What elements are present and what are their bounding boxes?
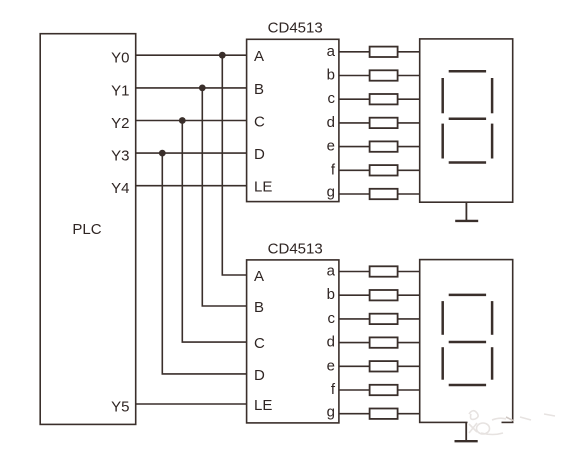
svg-text:D: D [254, 146, 265, 163]
svg-text:g: g [327, 184, 335, 201]
svg-text:Y2: Y2 [111, 115, 129, 132]
svg-text:e: e [327, 138, 335, 155]
wire R9 to DS2 [398, 294, 420, 296]
wire R13 to DS2 [398, 389, 420, 391]
resistor R2 [370, 70, 398, 80]
display DS2 box [420, 260, 513, 423]
svg-text:e: e [327, 357, 335, 374]
wire branch Y1 to U2 pin B [202, 88, 246, 306]
svg-text:Y4: Y4 [111, 180, 129, 197]
wire U2 g to R14 [339, 413, 370, 415]
wire R6 to DS1 [398, 169, 420, 171]
DS2 segment b [491, 301, 494, 335]
resistor R12 [370, 361, 398, 371]
resistor R7 [370, 189, 398, 199]
DS1 segment c [491, 124, 494, 159]
DS2 segment d [449, 384, 486, 387]
DS2 segment g [449, 341, 486, 344]
wire R10 to DS2 [398, 318, 420, 320]
svg-text:f: f [331, 381, 336, 398]
junction dot on Y3 [159, 150, 166, 157]
resistor R9 [370, 290, 398, 300]
svg-text:LE: LE [254, 179, 272, 196]
DS2 segment c [491, 347, 494, 380]
wire Y3 [136, 152, 247, 154]
svg-text:C: C [254, 335, 265, 352]
svg-text:f: f [331, 161, 336, 178]
wire Y4 [136, 185, 247, 187]
resistor R5 [370, 141, 398, 151]
DS1 segment d [449, 161, 486, 164]
svg-text:b: b [327, 286, 335, 303]
svg-text:Y0: Y0 [111, 50, 129, 67]
svg-text:d: d [327, 334, 335, 351]
wire branch Y0 to U2 pin A [222, 55, 246, 275]
wire branch Y2 to U2 pin C [182, 121, 246, 343]
resistor R3 [370, 94, 398, 104]
PLC box [40, 34, 136, 425]
svg-text:a: a [327, 263, 336, 280]
svg-text:B: B [254, 299, 264, 316]
svg-text:B: B [254, 81, 264, 98]
wire U2 a to R8 [339, 271, 370, 273]
svg-text:LE: LE [254, 397, 272, 414]
DS2 segment e [441, 347, 444, 380]
wire U1 d to R4 [339, 122, 370, 124]
wire R2 to DS1 [398, 75, 420, 77]
svg-text:A: A [254, 268, 264, 285]
resistor R4 [370, 118, 398, 128]
wire R11 to DS2 [398, 342, 420, 344]
ground for DS1 [455, 202, 478, 221]
wire U1 e to R5 [339, 146, 370, 148]
wire Y1 [136, 87, 247, 89]
resistor R10 [370, 314, 398, 324]
DS1 segment f [441, 78, 444, 113]
wire Y5 [136, 403, 247, 405]
svg-text:A: A [254, 48, 264, 65]
svg-text:a: a [327, 43, 336, 60]
svg-text:g: g [327, 403, 335, 420]
DS2 segment f [441, 301, 444, 335]
wire R12 to DS2 [398, 365, 420, 367]
wire R14 to DS2 [398, 413, 420, 415]
wire Y2 [136, 120, 247, 122]
wire branch Y3 to U2 pin D [162, 153, 246, 374]
wire U2 e to R12 [339, 365, 370, 367]
resistor R13 [370, 385, 398, 395]
svg-text:Y1: Y1 [111, 82, 129, 99]
wire U2 b to R9 [339, 294, 370, 296]
wire R3 to DS1 [398, 98, 420, 100]
wire R7 to DS1 [398, 193, 420, 195]
svg-text:b: b [327, 67, 335, 84]
wire R4 to DS1 [398, 122, 420, 124]
wire R8 to DS2 [398, 271, 420, 273]
svg-text:c: c [328, 90, 336, 107]
junction dot on Y0 [219, 52, 226, 59]
wire U1 c to R3 [339, 98, 370, 100]
DS2 segment a [449, 294, 486, 297]
wire R5 to DS1 [398, 146, 420, 148]
wire R1 to DS1 [398, 51, 420, 53]
DS1 segment g [449, 118, 486, 121]
svg-text:Y3: Y3 [111, 148, 129, 165]
display DS1 box [420, 39, 513, 202]
watermark (faint logo over lower display box edge) [468, 411, 556, 435]
resistor R11 [370, 337, 398, 347]
DS1 segment a [449, 70, 486, 73]
resistor R1 [370, 47, 398, 57]
ground for DS2 [455, 422, 478, 441]
wire U2 c to R10 [339, 318, 370, 320]
wire U2 f to R13 [339, 389, 370, 391]
svg-text:C: C [254, 114, 265, 131]
svg-text:PLC: PLC [72, 221, 101, 238]
wire U2 d to R11 [339, 342, 370, 344]
svg-text:CD4513: CD4513 [268, 240, 323, 257]
resistor R6 [370, 165, 398, 175]
svg-text:CD4513: CD4513 [268, 20, 323, 37]
svg-text:Y5: Y5 [111, 399, 129, 416]
DS1 segment b [491, 78, 494, 113]
IC U1 CD4513 box [247, 39, 339, 201]
wire U1 b to R2 [339, 75, 370, 77]
resistor R8 [370, 266, 398, 276]
wire U1 f to R6 [339, 169, 370, 171]
IC U2 CD4513 box [247, 260, 339, 423]
svg-text:D: D [254, 367, 265, 384]
junction dot on Y1 [199, 85, 206, 92]
DS1 segment e [441, 124, 444, 159]
wire Y0 [136, 54, 247, 56]
resistor R14 [370, 409, 398, 419]
svg-text:d: d [327, 114, 335, 131]
wire U1 a to R1 [339, 51, 370, 53]
wire U1 g to R7 [339, 193, 370, 195]
junction dot on Y2 [179, 117, 186, 124]
svg-text:c: c [328, 310, 336, 327]
